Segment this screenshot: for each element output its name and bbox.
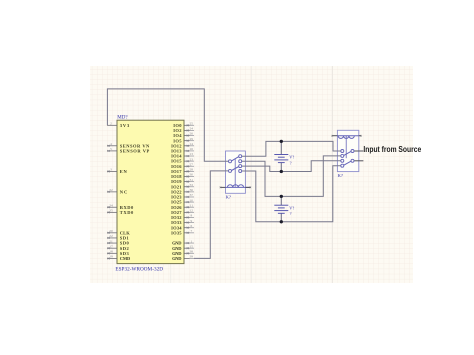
pin 8 IO32 (right)	[171, 214, 194, 220]
pin 16 IO13 (right)	[171, 147, 194, 153]
pin 15 GND (right)	[172, 244, 194, 250]
svg-text:25: 25	[190, 122, 194, 126]
svg-text:8: 8	[190, 214, 192, 218]
svg-text:39: 39	[190, 255, 194, 259]
relay K1 throw pins	[239, 155, 242, 173]
svg-text:15: 15	[190, 244, 194, 248]
pin 27 IO16 (right)	[171, 162, 194, 168]
pin 38 GND (right)	[172, 250, 194, 256]
wire K2 common1 stub to net label	[354, 150, 363, 152]
pin 21 SD0 (left)	[107, 239, 130, 245]
pin 3 EN (left)	[107, 168, 128, 174]
junction V1 plus node	[280, 140, 283, 143]
svg-text:V?: V?	[289, 205, 294, 210]
pin 37 IO23 (right)	[171, 193, 194, 199]
junction V2 plus node	[280, 195, 283, 198]
svg-text:18: 18	[109, 250, 113, 254]
relay K2 body	[337, 130, 358, 171]
svg-text:29: 29	[190, 137, 194, 141]
pin 9 IO33 (right)	[171, 219, 194, 225]
relay K2 common pins	[351, 150, 354, 163]
pin 28 IO17 (right)	[171, 168, 194, 174]
svg-text:CMD: CMD	[120, 256, 131, 261]
pin 23 IO15 (right)	[171, 157, 194, 163]
wire K1 throw2 - battery V2 plus - K2 pin2	[242, 156, 341, 197]
relay K2 coil	[332, 135, 362, 139]
wire K1 throw1 - battery V1 plus - K2 pin1	[242, 141, 341, 156]
svg-text:38: 38	[190, 250, 194, 254]
schematic sheet	[90, 66, 413, 283]
svg-text:K?: K?	[226, 195, 231, 200]
pin 26 IO4 (right)	[173, 132, 194, 138]
pin 22 SD1 (left)	[107, 234, 130, 240]
relay K1 coil	[220, 185, 251, 189]
svg-text:27: 27	[190, 162, 194, 166]
pin 13 IO14 (right)	[171, 152, 194, 158]
svg-text:IO35: IO35	[171, 230, 182, 235]
svg-text:SENSOR VP: SENSOR VP	[120, 149, 150, 154]
svg-text:13: 13	[190, 152, 194, 156]
pin 11 IO26 (right)	[171, 203, 194, 209]
wire GND pin39 to K1 common2	[194, 171, 228, 259]
relay K2 throw pins	[341, 150, 344, 168]
svg-text:NC: NC	[120, 189, 128, 194]
wire battery V2 leads	[280, 196, 282, 221]
relay K1 body	[226, 151, 246, 193]
svg-text:ESP32-WROOM-32D: ESP32-WROOM-32D	[115, 267, 163, 273]
pin 12 IO27 (right)	[171, 209, 194, 215]
pin 6 IO34 (right)	[171, 224, 194, 230]
svg-text:9: 9	[190, 219, 192, 223]
svg-text:16: 16	[190, 147, 194, 151]
svg-text:Input from Source: Input from Source	[363, 145, 421, 154]
pin 10 IO25 (right)	[171, 198, 194, 204]
svg-text:36: 36	[190, 188, 194, 192]
pin 19 CMD (left)	[107, 255, 131, 261]
wire K2 common2 stub (n.c.)	[354, 160, 363, 162]
svg-text:33: 33	[190, 183, 194, 187]
wire K1 throw3 - battery V1 minus - K2 pin3	[242, 161, 341, 172]
pin 14 IO12 (right)	[171, 142, 194, 148]
battery V2	[274, 205, 288, 213]
svg-text:4: 4	[110, 142, 112, 146]
svg-text:MD?: MD?	[117, 116, 128, 121]
pin 7 IO35 (right)	[171, 229, 194, 235]
pin 39 GND (right)	[172, 255, 194, 261]
svg-text:35: 35	[109, 209, 113, 213]
svg-text:EN: EN	[120, 169, 128, 174]
svg-text:24: 24	[190, 127, 194, 131]
pin 1 GND (right)	[172, 239, 194, 245]
module MD? ESP32-WROOM-32D body	[117, 120, 184, 263]
pin 30 IO18 (right)	[171, 173, 194, 179]
svg-text:28: 28	[190, 168, 194, 172]
svg-text:TXD0: TXD0	[120, 210, 134, 215]
relay K2 switch blades	[344, 151, 351, 165]
pin 36 IO22 (right)	[171, 188, 194, 194]
pin 5 SENSOR VP (left)	[107, 147, 150, 153]
svg-text:23: 23	[190, 157, 194, 161]
svg-text:31: 31	[190, 178, 194, 182]
svg-text:?: ?	[290, 160, 292, 165]
svg-text:19: 19	[109, 255, 113, 259]
svg-text:K?: K?	[338, 173, 343, 178]
svg-text:1: 1	[190, 239, 192, 243]
svg-text:5: 5	[110, 147, 112, 151]
pin 4 SENSOR VN (left)	[107, 142, 150, 148]
pin 32 NC (left)	[107, 188, 127, 194]
relay K1 switch blades	[232, 157, 239, 171]
svg-text:17: 17	[109, 244, 113, 248]
pin 35 TXD0 (left)	[107, 209, 134, 215]
svg-text:3: 3	[110, 168, 112, 172]
wire K1 throw4 - battery V2 minus - K2 pin4	[242, 166, 341, 222]
relay K1 common pins	[229, 160, 232, 173]
junction V1 minus node	[280, 170, 283, 173]
pin 17 SD2 (left)	[107, 244, 130, 250]
svg-text:20: 20	[109, 229, 113, 233]
pin 34 RXD0 (left)	[107, 203, 134, 209]
svg-text:14: 14	[190, 142, 194, 146]
svg-text:GND: GND	[172, 256, 182, 261]
svg-text:21: 21	[109, 239, 113, 243]
wire 3V3 pin2 to K1 common1 (top loop)	[107, 89, 228, 161]
svg-text:6: 6	[190, 224, 192, 228]
pin 20 CLK (left)	[107, 229, 130, 235]
svg-text:22: 22	[109, 234, 113, 238]
relay K2 linkage	[345, 136, 347, 159]
svg-text:30: 30	[190, 173, 194, 177]
svg-text:26: 26	[190, 132, 194, 136]
svg-text:7: 7	[190, 229, 192, 233]
junction V2 minus node	[280, 220, 283, 223]
svg-text:37: 37	[190, 193, 194, 197]
svg-text:2: 2	[110, 122, 112, 126]
svg-text:?: ?	[290, 211, 292, 216]
wire battery V1 leads	[280, 141, 282, 171]
svg-text:32: 32	[109, 188, 113, 192]
relay K1 linkage	[234, 159, 236, 187]
svg-text:10: 10	[190, 198, 194, 202]
pin 18 SD3 (left)	[107, 250, 130, 256]
svg-text:12: 12	[190, 209, 194, 213]
pin 33 IO21 (right)	[171, 183, 194, 189]
svg-text:V?: V?	[289, 155, 294, 160]
battery V1	[274, 155, 288, 163]
pin 25 IO0 (right)	[173, 122, 194, 128]
sheet zone dividers	[171, 66, 252, 283]
pin 31 IO19 (right)	[171, 178, 194, 184]
svg-text:34: 34	[109, 203, 113, 207]
pin 2 3V3 (left)	[107, 122, 130, 128]
svg-text:11: 11	[190, 203, 194, 207]
pin 29 IO5 (right)	[173, 137, 194, 143]
pin 24 IO2 (right)	[173, 127, 194, 133]
svg-text:3V3: 3V3	[120, 123, 130, 128]
